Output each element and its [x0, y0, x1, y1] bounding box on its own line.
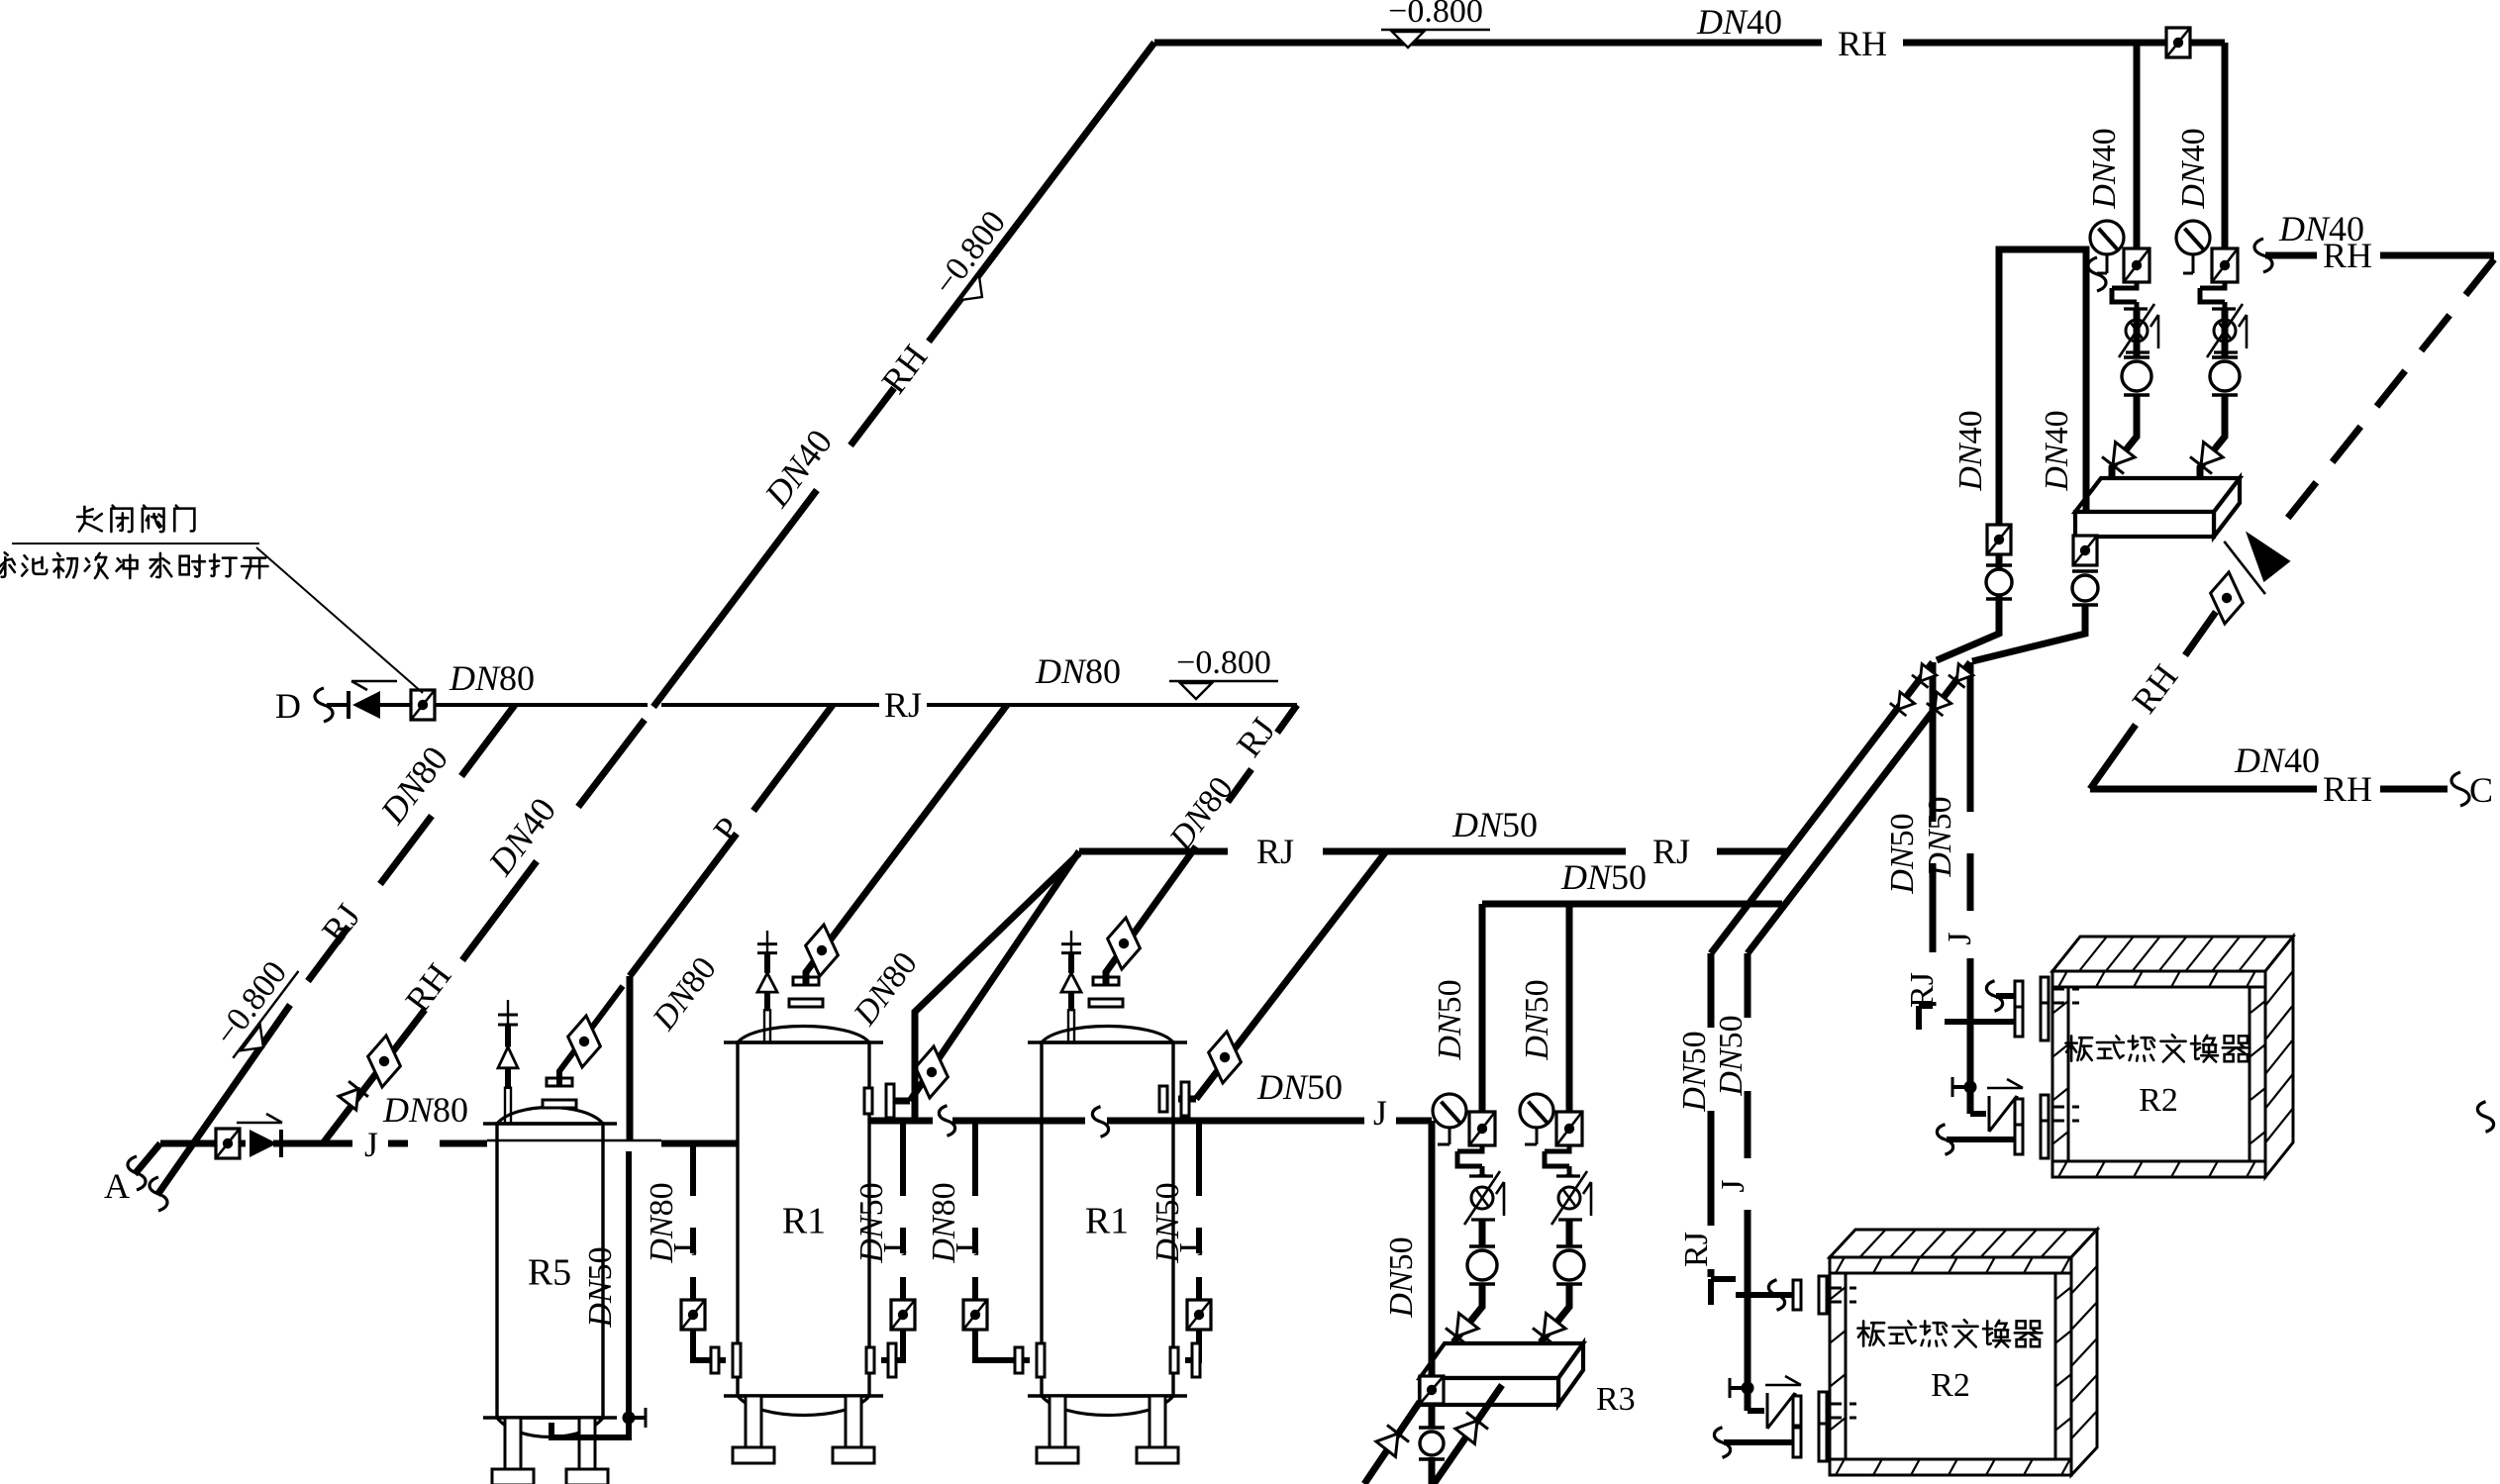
valve V on J drop	[1420, 1376, 1444, 1404]
svg-text:DN50: DN50	[1519, 979, 1555, 1060]
svg-text:DN40: DN40	[2086, 128, 2123, 209]
wire branch2 to R3	[1541, 1284, 1569, 1342]
coupling arrows on riser J	[1949, 663, 1974, 688]
pump P4 on right downpipe	[2072, 571, 2098, 605]
flange R1-1 top nozzle	[789, 977, 823, 1007]
flange upper R2 conn1	[2015, 977, 2049, 1015]
svg-text:DN50: DN50	[1256, 1067, 1343, 1107]
pump small on J drop	[1419, 1428, 1445, 1459]
svg-text:−0.800: −0.800	[1388, 0, 1483, 30]
pump P branch2	[1554, 1246, 1584, 1284]
valve diamond on long diagonal	[358, 1035, 410, 1088]
wire J riser drop	[1429, 1121, 1436, 1429]
balancing valve branch2	[1551, 1171, 1591, 1225]
balancing valve branch1	[1464, 1171, 1504, 1225]
svg-text:DN50: DN50	[1676, 1031, 1713, 1112]
wire riser J (right) lower vertical	[1745, 953, 1751, 1411]
svg-text:DN50: DN50	[1560, 857, 1647, 897]
wire P pipe vertical	[627, 976, 634, 1140]
pipe break squiggle RH stub	[2254, 239, 2272, 272]
wire right downpipe below box	[2082, 537, 2089, 546]
wire branch1 to R3	[1453, 1284, 1482, 1342]
wire upper R2 conn1 (squiggle)	[1996, 993, 2016, 999]
wire R1-2 nozzle riser DN80 RJ	[1106, 705, 1297, 984]
pump P branch1	[1467, 1246, 1497, 1284]
svg-text:DN40: DN40	[2039, 410, 2075, 491]
check valve at D	[352, 691, 380, 719]
wire left downpipe elbow join	[1937, 598, 1999, 660]
wire branch J to R1-1 right	[900, 1121, 906, 1299]
wire lower R2 conn3 (squiggle)	[1724, 1439, 1794, 1445]
flange upper R2 conn3	[2015, 1095, 2049, 1133]
wire riser J diagonal up	[1748, 662, 1970, 953]
wire RH DN40 stub right	[2265, 252, 2494, 259]
wire conn2 dashes	[1830, 1404, 1856, 1418]
valve V-D on RJ line	[411, 690, 435, 720]
safety valve assembly R5	[498, 1000, 518, 1124]
svg-text:R1: R1	[782, 1201, 826, 1242]
annotation underline	[12, 543, 259, 544]
wire J-line right section	[869, 1118, 1432, 1125]
wire riser RJ diagonal up	[1711, 662, 1933, 953]
annotation text line2	[0, 552, 15, 577]
svg-text:J: J	[1373, 1093, 1387, 1133]
pipe break squiggle conn1	[1768, 1280, 1784, 1311]
flange lower R2 conn3	[1793, 1424, 1827, 1461]
leader line to valve (annotation)	[256, 547, 423, 693]
valve diamond R5 nozzle	[558, 1015, 610, 1068]
valve V-A on J-line	[216, 1129, 240, 1158]
svg-text:J: J	[667, 1242, 704, 1255]
valve V3 on left downpipe	[1987, 525, 2011, 554]
gauge PI-1 top right	[2090, 221, 2124, 254]
pipe break squiggle on gooseneck	[2088, 257, 2106, 291]
pipe break squiggle J-line at A	[128, 1156, 146, 1190]
gauge PI branch1	[1433, 1094, 1466, 1128]
pump P2 top right	[2210, 357, 2240, 395]
wire branch2 mid	[1566, 1174, 1573, 1245]
svg-text:D: D	[275, 686, 301, 726]
junction dot on riser J upper	[1964, 1081, 1977, 1094]
svg-text:DN80: DN80	[449, 658, 535, 698]
wire conn1 dashes	[1830, 1288, 1856, 1302]
wire R5 drain	[551, 1151, 629, 1437]
svg-text:J: J	[1715, 1179, 1751, 1192]
svg-text:DN40: DN40	[2175, 128, 2212, 209]
backflow preventer lower R2	[1765, 1376, 1801, 1429]
pipe break squiggle J-line 2	[1092, 1107, 1108, 1138]
valve V1 gauge branch1	[2124, 248, 2150, 282]
svg-text:R3: R3	[1596, 1381, 1636, 1418]
wire gauge1 drop	[2097, 254, 2107, 273]
wire upper R2 conn3 via backflow	[1970, 1111, 2024, 1117]
check arrow diag1	[1375, 1425, 1409, 1457]
flange lower R2 conn1	[1793, 1276, 1827, 1314]
wire RH DN40 C line	[2090, 786, 2448, 793]
svg-text:RH: RH	[2323, 236, 2372, 275]
wire gauge2 stub	[1525, 1128, 1537, 1144]
bracket RJ to lower R2	[1711, 1279, 1736, 1305]
flange upper R2 conn4	[2015, 1121, 2049, 1158]
svg-text:RJ: RJ	[1678, 1232, 1715, 1267]
wire J-line through R5 (thin)	[487, 1139, 661, 1142]
svg-text:−0.800: −0.800	[1176, 644, 1271, 681]
pipe break squiggle J-line 1	[939, 1106, 954, 1137]
wire dashed RH riser diagonal	[2287, 259, 2494, 519]
wire DN50 RJ manifold	[1079, 848, 1788, 855]
wire pump branch2 drop	[1566, 904, 1573, 1111]
wire right downpipe elbow join	[1972, 606, 2085, 661]
svg-text:RJ: RJ	[884, 685, 922, 725]
wire branch1 to pump	[2134, 308, 2141, 356]
level mark -0.800 on RJ diagonal	[204, 949, 313, 1069]
safety valve assembly R1-1	[757, 931, 777, 1042]
check valve arrow branch1	[2102, 442, 2136, 474]
svg-text:R5: R5	[528, 1252, 571, 1294]
flow arrow on J-line	[237, 1114, 282, 1123]
wire branch1 pump outlet elbow	[2112, 395, 2137, 479]
backflow preventer upper R2	[1987, 1079, 2023, 1132]
valve V gauge1	[1469, 1112, 1495, 1145]
svg-text:RH: RH	[2323, 769, 2372, 809]
wire J-line R5 to R1-1	[661, 1140, 738, 1147]
level mark -0.800 on long diagonal	[923, 199, 1032, 319]
safety valve assembly R1-2	[1061, 931, 1081, 1042]
heat exchanger R2 upper box	[2052, 937, 2293, 971]
pipe break squiggle right edge	[2477, 1102, 2493, 1133]
wire branch risers DN40 from header	[2137, 43, 2225, 249]
check valve arrow branch2	[2190, 442, 2224, 474]
flow arrow at D	[351, 681, 397, 690]
flange R1-2 top nozzle	[1089, 977, 1123, 1007]
wire riser RJ right vertical down	[1930, 662, 1937, 1006]
flange upper R2 conn2	[2015, 1003, 2049, 1040]
wire branch2 loop	[1545, 1145, 1569, 1174]
wire upper R2 conn4 (squiggle)	[1947, 1137, 2016, 1142]
svg-text:A: A	[104, 1166, 130, 1206]
wire DN80 RJ diagonal	[157, 705, 515, 1195]
pipe break squiggle at D	[315, 688, 333, 722]
svg-text:RH: RH	[1838, 24, 1887, 63]
pump P1 top right	[2122, 357, 2151, 395]
svg-text:DN40: DN40	[1696, 2, 1782, 42]
collector box top right	[2075, 478, 2240, 537]
heat exchanger R2 lower box	[1830, 1230, 2097, 1257]
wire branch2 loop	[2200, 282, 2225, 308]
wire branch J to R1-2 right	[1196, 1121, 1202, 1299]
wire riser RJ (left) lower vertical	[1708, 953, 1715, 1277]
wire P pipe diagonal	[630, 705, 833, 976]
svg-text:DN50: DN50	[1922, 796, 1958, 877]
wire RJ D-line	[327, 703, 1297, 707]
label upper R2 title	[2065, 1036, 2092, 1060]
check arrow into R3 b1	[1446, 1313, 1479, 1345]
pump P3 on left downpipe	[1986, 565, 2012, 599]
balancing valve BV1 branch1	[2119, 304, 2158, 357]
wire R5 nozzle riser	[559, 986, 623, 1085]
valve diamond R1-1 riser	[796, 924, 848, 977]
wire gauge1 stub	[1438, 1128, 1450, 1144]
valve V4 on right downpipe	[2073, 536, 2097, 565]
svg-text:J: J	[1942, 932, 1978, 944]
wire manifold T branch to R1-2	[1178, 851, 1386, 1099]
wire riser J right vertical down	[1967, 662, 1974, 1114]
tank R1 no2	[1028, 1027, 1187, 1464]
wire branch J to R1-1 left	[690, 1143, 696, 1299]
valve diamond on RH riser	[2201, 571, 2252, 625]
svg-text:DN50: DN50	[582, 1246, 619, 1328]
wire gooseneck DN40 loop over gauges	[1999, 249, 2086, 634]
level mark -0.800 RJ line	[1169, 644, 1278, 699]
svg-text:RJ: RJ	[1904, 972, 1941, 1008]
label lower R2 title	[1857, 1321, 1884, 1345]
flange R1-2 right top	[1159, 1082, 1189, 1116]
svg-text:DN50: DN50	[1432, 979, 1468, 1060]
svg-text:DN80: DN80	[1035, 651, 1121, 691]
wire branch2 pump outlet elbow	[2200, 395, 2225, 479]
svg-text:J: J	[1173, 1242, 1210, 1255]
wire manifold left branch to R1-1	[887, 851, 1079, 1101]
valve diamond R1-2 riser	[1098, 917, 1150, 970]
valve diamond manifold-R1-2	[1199, 1031, 1250, 1084]
svg-text:J: J	[877, 1242, 914, 1255]
junction dot R5 drain	[623, 1412, 636, 1425]
wire conn3 dashes	[2052, 1107, 2079, 1121]
wire branch1 loop	[1457, 1145, 1482, 1174]
junction dot on riser J lower	[1742, 1382, 1754, 1395]
wire DN50 manifold2	[1482, 901, 1782, 908]
pipe break squiggle RJ diag at A	[150, 1177, 167, 1211]
valve V gauge2	[1556, 1112, 1582, 1145]
wire long diagonal DN40 RH (supply riser)	[323, 43, 1154, 1143]
svg-text:DN80: DN80	[382, 1090, 468, 1130]
check arrow diag2	[1454, 1412, 1488, 1444]
wire branch2 to pump	[2222, 308, 2229, 356]
wire branch J to R1-2 left	[972, 1121, 978, 1299]
svg-text:DN50: DN50	[1383, 1237, 1420, 1318]
svg-text:R2: R2	[2139, 1082, 2178, 1119]
svg-text:J: J	[364, 1125, 378, 1164]
wire J-line stub to A	[135, 1143, 160, 1174]
valve V-top on header	[2166, 28, 2190, 57]
svg-text:R2: R2	[1931, 1367, 1970, 1404]
flange lower R2 conn2	[1793, 1392, 1827, 1430]
svg-text:J: J	[950, 1242, 986, 1255]
wire RH riser solid to C line	[2090, 612, 2216, 789]
pipe break squiggle C line	[2451, 772, 2469, 806]
wire J drop bottom	[1429, 1457, 1436, 1484]
wire R1-1 nozzle riser DN80 RJ	[806, 705, 1007, 984]
wire upper R2 conn2	[1945, 1019, 2016, 1025]
wire top RH DN40 header	[1154, 40, 2225, 47]
wire DN80 jog pipe	[915, 853, 1079, 1121]
check valve on J-line	[250, 1130, 277, 1157]
check arrow into R3 b2	[1533, 1313, 1566, 1345]
svg-text:DN50: DN50	[1884, 813, 1921, 894]
svg-text:RJ: RJ	[1256, 832, 1294, 871]
svg-text:DN50: DN50	[1713, 1015, 1750, 1096]
wire gauge2 drop	[2183, 254, 2193, 273]
annotation text line1 changbifamen	[77, 507, 102, 532]
bracket RJ to upper R2	[1919, 1006, 1933, 1030]
flange R5 top nozzle	[543, 1078, 576, 1108]
wire lower R2 conn1	[1736, 1292, 1794, 1298]
balancing valve BV2 branch2	[2207, 304, 2247, 357]
svg-text:RJ: RJ	[1652, 832, 1690, 871]
valve diamond manifold-R1-1	[906, 1045, 957, 1099]
wire branch1 mid	[1479, 1174, 1486, 1245]
tank R1 no1	[724, 1027, 883, 1464]
wire conn1 dashes	[2052, 989, 2079, 1003]
gauge PI branch2	[1520, 1094, 1553, 1128]
tank R5	[483, 1108, 617, 1484]
wire bottom feed diagonal 2	[1434, 1385, 1502, 1484]
flow arrow on long diagonal	[338, 1081, 368, 1111]
wire pump branch1 drop	[1479, 904, 1486, 1111]
wire lower R2 conn2 via backflow	[1748, 1408, 1802, 1414]
svg-text:DN40: DN40	[2234, 741, 2320, 780]
big flow arrow on RH riser	[2224, 517, 2297, 594]
exchanger R3 box	[1420, 1343, 1583, 1405]
gauge PI-2 top right	[2176, 221, 2210, 254]
flange R1-1 right top	[864, 1084, 894, 1118]
svg-text:DN50: DN50	[1451, 805, 1538, 844]
level mark -0.800 top header	[1381, 0, 1490, 48]
wire bottom feed diagonal 1	[1364, 1402, 1420, 1484]
svg-text:R1: R1	[1085, 1201, 1129, 1242]
valve V2 gauge branch2	[2212, 248, 2238, 282]
svg-text:C: C	[2469, 770, 2493, 810]
coupling arrows on riser RJ	[1912, 663, 1938, 688]
wire J-line left	[160, 1140, 487, 1147]
svg-text:DN40: DN40	[1952, 410, 1989, 491]
wire branch1 loop	[2112, 282, 2137, 308]
